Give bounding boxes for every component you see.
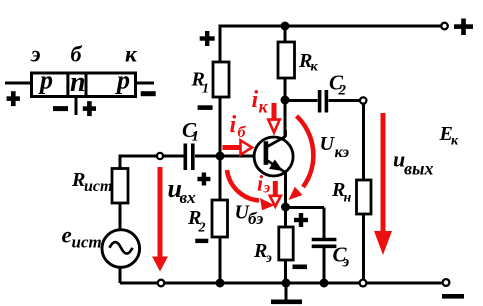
- svg-text:2: 2: [338, 83, 347, 99]
- svg-text:б: б: [238, 124, 247, 141]
- svg-text:э: э: [263, 180, 271, 197]
- svg-text:э: э: [30, 42, 41, 67]
- svg-text:2: 2: [198, 221, 206, 236]
- svg-text:н: н: [344, 191, 352, 206]
- svg-text:i: i: [252, 87, 259, 113]
- svg-text:1: 1: [202, 82, 209, 97]
- svg-text:к: к: [451, 134, 459, 149]
- svg-text:б: б: [71, 42, 83, 67]
- svg-text:ист: ист: [84, 178, 112, 195]
- svg-text:э: э: [265, 251, 272, 266]
- svg-text:1: 1: [192, 129, 200, 145]
- svg-text:i: i: [230, 112, 237, 138]
- svg-text:U: U: [320, 133, 336, 155]
- svg-text:вх: вх: [180, 188, 197, 207]
- svg-text:э: э: [342, 254, 350, 271]
- svg-text:p: p: [115, 66, 130, 95]
- svg-text:к: к: [311, 60, 319, 75]
- svg-text:p: p: [38, 66, 53, 95]
- svg-text:кэ: кэ: [335, 144, 350, 161]
- svg-text:e: e: [62, 223, 72, 248]
- svg-text:ист: ист: [72, 233, 102, 252]
- svg-text:бэ: бэ: [248, 209, 263, 228]
- svg-text:к: к: [259, 97, 269, 117]
- svg-text:п: п: [70, 67, 86, 98]
- svg-text:к: к: [125, 42, 138, 67]
- svg-text:вых: вых: [404, 159, 434, 179]
